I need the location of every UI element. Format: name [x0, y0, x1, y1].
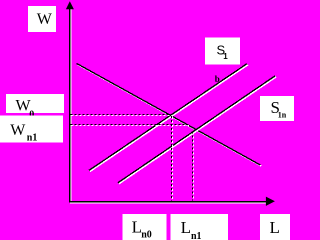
- label box S1: [205, 38, 240, 65]
- demand curve D (downward): [77, 63, 262, 166]
- label box S1n: [260, 96, 294, 121]
- svg-text:L: L: [181, 218, 191, 237]
- svg-text:L: L: [270, 218, 280, 237]
- svg-text:b: b: [215, 74, 220, 84]
- label box Ln1: [171, 214, 229, 240]
- svg-text:n1: n1: [191, 231, 202, 240]
- label box W: [28, 6, 56, 32]
- x-axis (L axis): [69, 197, 275, 206]
- svg-text:1: 1: [223, 52, 228, 61]
- svg-text:W: W: [37, 11, 53, 28]
- svg-text:1n: 1n: [278, 110, 287, 119]
- supply curve S1n (upward): [118, 76, 276, 184]
- label box W0: [6, 94, 64, 121]
- dashed quantity line Ln0: [172, 116, 173, 201]
- dashed level line Wn1: [71, 125, 190, 126]
- supply curve S1 (upward): [89, 64, 248, 172]
- y-axis (W axis): [66, 1, 74, 202]
- label box L: [260, 214, 290, 240]
- dashed quantity line Ln1: [193, 132, 194, 201]
- svg-text:n1: n1: [27, 133, 38, 144]
- svg-text:W: W: [10, 122, 26, 139]
- svg-text:n0: n0: [141, 230, 152, 240]
- label box Ln0: [123, 214, 167, 240]
- dashed level line W0: [71, 115, 173, 116]
- label box Wn1: [0, 116, 63, 144]
